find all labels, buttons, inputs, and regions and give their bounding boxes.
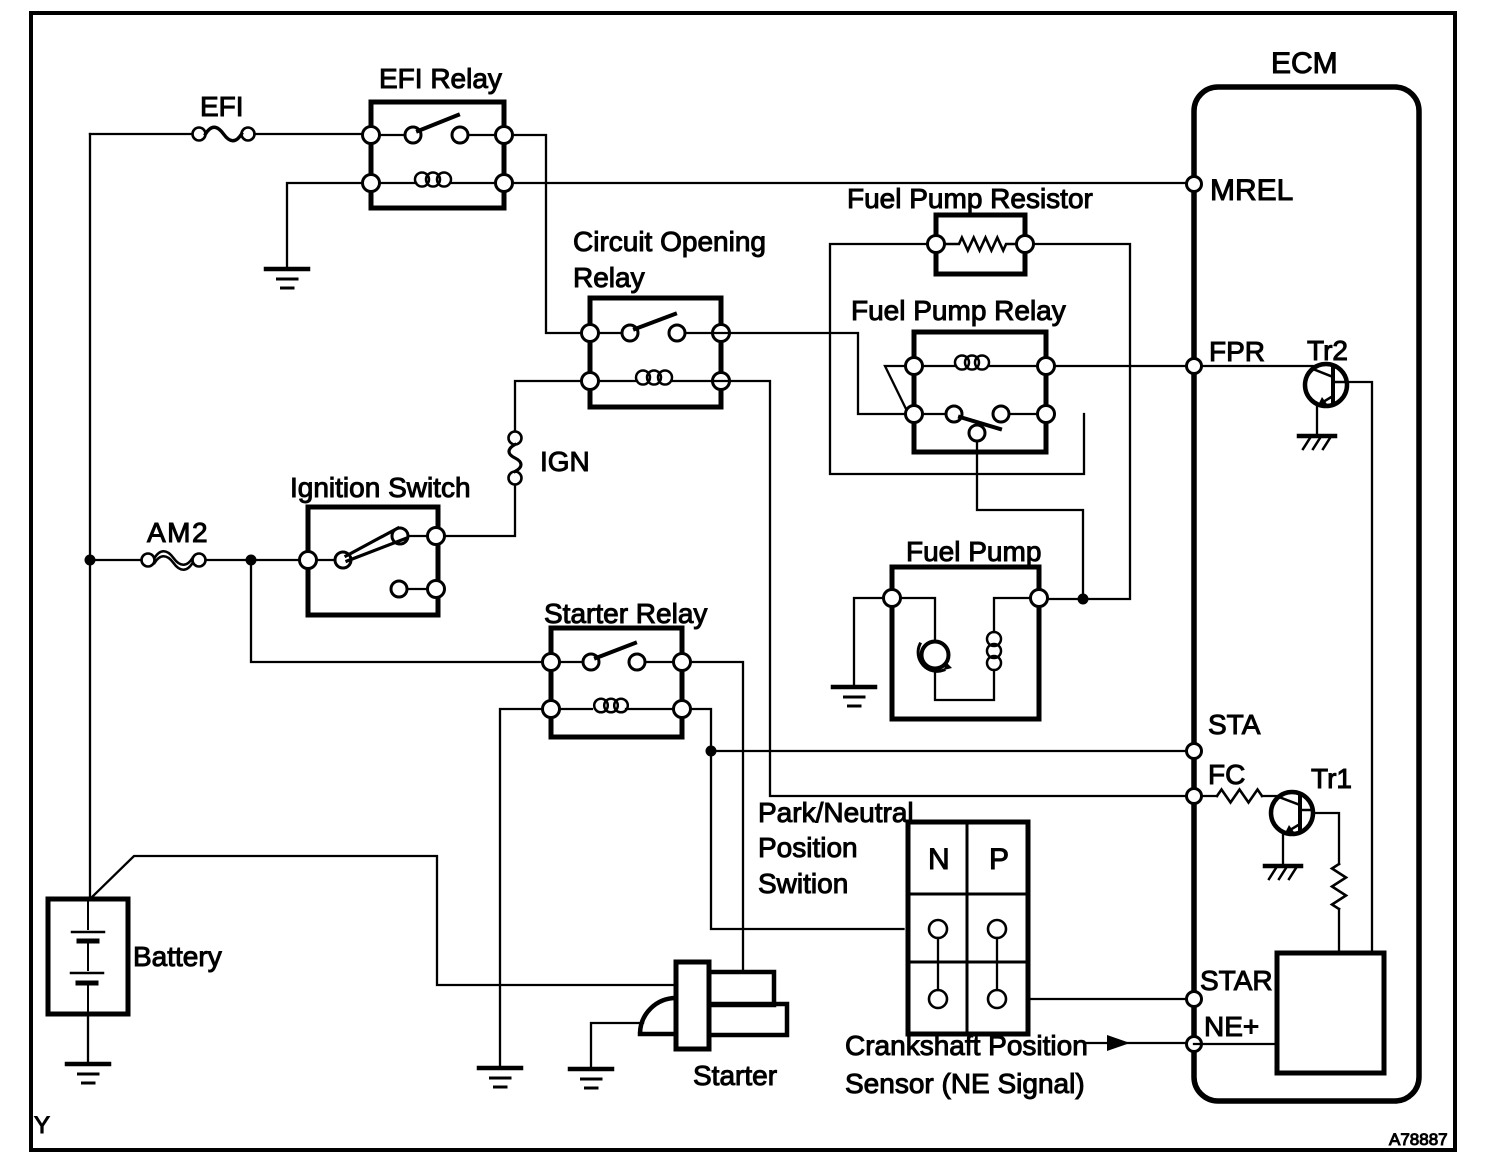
component box Fuel Pump [892, 567, 1039, 719]
label Starter [693, 1060, 777, 1091]
label Crankshaft Position Sensor (NE Signal) [845, 1030, 1088, 1099]
wire: relay common contact to fuel pump [977, 441, 1083, 594]
label Tr2 [1307, 335, 1348, 366]
wire MREL net (EFI relay coil to ECM) [513, 182, 1195, 184]
wire STA net to ECM [711, 750, 1194, 752]
resistor (Tr1 collector, vertical) [1332, 864, 1346, 909]
svg-text:Battery: Battery [133, 941, 222, 972]
label Park/Neutral Position Swition [758, 797, 914, 899]
ignition switch terminals [300, 528, 445, 598]
label AM2 [147, 517, 209, 548]
wire: Tr1 emitter to ground [1282, 834, 1284, 864]
svg-text:Relay: Relay [573, 262, 645, 293]
label Fuel Pump Relay [851, 295, 1066, 326]
label Starter Relay [544, 598, 707, 629]
label Y (page marker) [34, 1112, 50, 1139]
ECM box [1194, 87, 1419, 1101]
Starter relay terminals [543, 654, 691, 718]
node: battery bus / AM2 junction [85, 555, 96, 566]
switch box Park/Neutral Position Switch [908, 822, 1028, 1034]
pin FC [1187, 789, 1202, 804]
ground: battery [67, 1064, 109, 1083]
EFI relay terminals [363, 127, 513, 192]
svg-text:EFI Relay: EFI Relay [379, 63, 502, 94]
svg-text:Fuel Pump: Fuel Pump [906, 536, 1041, 567]
svg-text:A78887: A78887 [1389, 1130, 1448, 1149]
wire: EFI fuse feed [90, 133, 192, 135]
Circuit Opening Relay terminals [582, 325, 730, 390]
EFI relay switch contacts [380, 115, 496, 143]
pin NE+ [1187, 1037, 1202, 1052]
wire: COR coil to IGN fuse [515, 381, 582, 432]
pin MREL [1187, 177, 1202, 192]
wire: resistor bypass loop left [830, 244, 1084, 474]
ground: starter [570, 1069, 612, 1088]
Fuel Pump Relay terminals [906, 358, 1055, 423]
ground: EFI relay coil [266, 269, 308, 288]
wire: EFI relay coil to ground [287, 183, 363, 266]
svg-text:Crankshaft Position: Crankshaft Position [845, 1030, 1088, 1061]
svg-text:P: P [989, 843, 1009, 876]
Fuel Pump Relay coil [923, 356, 1038, 370]
Circuit Opening Relay coil [599, 371, 713, 385]
label EFI [200, 91, 244, 122]
fuel pump motor M [901, 598, 953, 671]
fuse IGN [509, 432, 522, 485]
svg-text:NE+: NE+ [1204, 1011, 1259, 1042]
wire: junction down to starter relay [251, 560, 543, 662]
pin FPR [1187, 359, 1202, 374]
relay box Circuit Opening Relay [590, 298, 721, 407]
Circuit Opening Relay switch contacts [599, 314, 713, 341]
svg-text:Sensor (NE Signal): Sensor (NE Signal) [845, 1068, 1085, 1099]
svg-text:Starter: Starter [693, 1060, 777, 1091]
svg-text:Ignition Switch: Ignition Switch [290, 472, 471, 503]
fuel pump internal coil [935, 598, 1031, 700]
fuse AM2 [142, 551, 206, 570]
svg-text:FPR: FPR [1209, 336, 1265, 367]
svg-text:MREL: MREL [1210, 174, 1293, 207]
label MREL [1210, 174, 1293, 207]
relay box EFI Relay [371, 102, 504, 208]
Starter relay switch contacts [560, 643, 674, 670]
label Fuel Pump Resistor [847, 183, 1093, 214]
fuel pump terminals [884, 590, 1048, 607]
wire FC net (COR coil to ECM) [713, 381, 1187, 796]
wire: starter relay coil to ground [500, 709, 543, 1066]
wire: starter relay coil to STA junction [691, 709, 712, 751]
wire: Tr2 emitter to ground [1316, 406, 1318, 434]
EFI relay coil [380, 173, 496, 187]
svg-text:Circuit Opening: Circuit Opening [573, 226, 766, 257]
Starter relay coil [560, 699, 674, 713]
transistor Tr2 [1305, 364, 1347, 406]
node: STA junction [706, 746, 717, 757]
svg-text:Position: Position [758, 832, 858, 863]
svg-text:Tr1: Tr1 [1311, 763, 1352, 794]
label Battery [133, 941, 222, 972]
wire: starter to ground [591, 1023, 643, 1067]
svg-text:N: N [928, 843, 950, 876]
svg-text:Park/Neutral: Park/Neutral [758, 797, 914, 828]
wire: battery feed vertical (left bus) [89, 134, 91, 899]
wire: IGN fuse to ignition switch [447, 485, 516, 537]
pin STAR [1187, 992, 1202, 1007]
label FPR [1209, 336, 1265, 367]
svg-text:STAR: STAR [1200, 965, 1273, 996]
wire: Tr2 collector down to NE block [1347, 382, 1372, 953]
ground: starter relay coil [479, 1068, 521, 1087]
svg-text:AM2: AM2 [147, 517, 209, 548]
svg-text:FC: FC [1208, 759, 1245, 790]
starter solenoid body [676, 962, 709, 1049]
resistor element (fuel pump resistor) [945, 238, 1017, 251]
label A78887 [1389, 1130, 1448, 1149]
wire: COR switch to fuel pump relay [713, 333, 906, 414]
resistor FC (base resistor) [1202, 790, 1282, 803]
wire: battery to starter feed [90, 856, 674, 985]
label FC [1208, 759, 1245, 790]
wire NE+ net with arrow from crankshaft sensor [1085, 1035, 1194, 1051]
fuel pump resistor terminals [928, 236, 1034, 253]
svg-text:Fuel Pump Resistor: Fuel Pump Resistor [847, 183, 1093, 214]
svg-text:Swition: Swition [758, 868, 848, 899]
wire: NE+ pin to NE block [1194, 1043, 1277, 1045]
wire: AM2 fuse to ignition switch [206, 559, 300, 561]
wire: junction down to park/neutral switch [711, 751, 904, 929]
NE signal block [1277, 953, 1384, 1073]
wire: resistor to fuel pump (right drop) [1034, 244, 1131, 599]
starter nose wedge [640, 998, 676, 1034]
transistor Tr1 [1271, 792, 1313, 834]
node: fuel pump feed junction [1078, 594, 1089, 605]
wire: fuel pump to ground [854, 598, 884, 685]
battery box [48, 899, 128, 1014]
label IGN [540, 446, 590, 477]
svg-text:Starter Relay: Starter Relay [544, 598, 707, 629]
label Circuit Opening Relay [573, 226, 766, 293]
switch box Ignition Switch [308, 507, 438, 615]
label ECM [1271, 47, 1338, 80]
battery cell plates [71, 902, 104, 1012]
ignition switch contacts and lever [317, 528, 430, 597]
ground: Tr2 emitter (chassis) [1299, 436, 1335, 449]
svg-text:Tr2: Tr2 [1307, 335, 1348, 366]
wire: junction to fuel pump terminal [1048, 598, 1084, 600]
wire: Tr1 collector to pull resistor [1313, 813, 1339, 864]
label Fuel Pump [906, 536, 1041, 567]
label EFI Relay [379, 63, 502, 94]
svg-text:ECM: ECM [1271, 47, 1338, 80]
wire: fuel pump relay coil jog [885, 366, 906, 409]
wire: bus to AM2 fuse [90, 559, 142, 561]
wire: EFI fuse to EFI relay [255, 133, 372, 135]
park/neutral switch contacts [929, 920, 1006, 1008]
label STA [1208, 709, 1261, 740]
wire: EFI relay switch to Circuit Opening Relay [513, 135, 582, 333]
wire STAR net (park/neutral to ECM) [1028, 998, 1194, 1000]
Fuel Pump Relay switch contacts [923, 406, 1038, 441]
component box Fuel Pump Resistor [936, 215, 1025, 274]
label Tr1 [1311, 763, 1352, 794]
svg-text:STA: STA [1208, 709, 1261, 740]
wire: starter relay switch to starter [691, 662, 744, 969]
label P [989, 843, 1009, 876]
starter lower housing [709, 1004, 787, 1035]
relay box Starter Relay [551, 628, 682, 737]
label NE+ [1204, 1011, 1259, 1042]
wire: resistor to NE block [1338, 909, 1340, 953]
fuse EFI [193, 127, 255, 141]
label STAR [1200, 965, 1273, 996]
svg-text:Y: Y [34, 1112, 50, 1139]
svg-text:Fuel Pump Relay: Fuel Pump Relay [851, 295, 1066, 326]
label Ignition Switch [290, 472, 471, 503]
ground: Tr1 emitter (chassis) [1265, 866, 1301, 879]
wire: battery to ground [87, 1014, 89, 1062]
node: starter relay branch junction [246, 555, 257, 566]
svg-text:EFI: EFI [200, 91, 244, 122]
ground: fuel pump [833, 687, 875, 706]
pin STA [1187, 744, 1202, 759]
starter upper housing [709, 972, 774, 1005]
svg-text:IGN: IGN [540, 446, 590, 477]
wire FPR net (relay coil to ECM and Tr2) [1055, 365, 1317, 367]
relay box Fuel Pump Relay [914, 332, 1046, 452]
label N [928, 843, 950, 876]
